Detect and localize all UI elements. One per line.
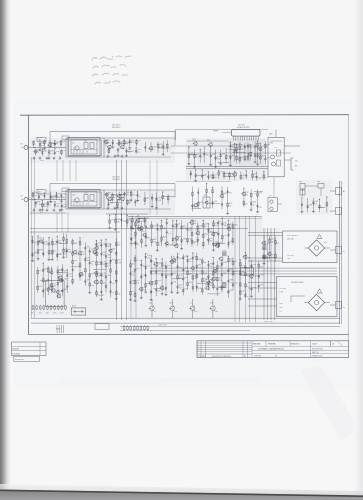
svg-text:R6: R6 — [241, 157, 243, 159]
svg-text:100: 100 — [147, 257, 150, 259]
svg-text:100: 100 — [249, 147, 252, 149]
svg-text:470: 470 — [34, 242, 37, 244]
svg-text:SCHEMATIC DIAGRAM PS3500: SCHEMATIC DIAGRAM PS3500 — [258, 347, 284, 350]
svg-text:C23: C23 — [260, 284, 263, 286]
svg-text:220: 220 — [34, 195, 37, 197]
svg-text:220: 220 — [158, 291, 161, 293]
svg-text:2SC 1815: 2SC 1815 — [238, 124, 245, 126]
svg-text:100: 100 — [210, 241, 213, 243]
svg-text:Q93: Q93 — [204, 195, 207, 197]
svg-text:220: 220 — [245, 194, 248, 196]
svg-text:R4: R4 — [234, 261, 236, 263]
svg-text:C27: C27 — [262, 156, 265, 158]
svg-text:C78: C78 — [111, 220, 114, 222]
svg-text:R33: R33 — [230, 290, 233, 292]
svg-text:T87: T87 — [87, 280, 90, 282]
svg-text:47u: 47u — [173, 262, 176, 264]
svg-text:1u: 1u — [112, 292, 114, 294]
svg-text:T31: T31 — [173, 281, 176, 283]
svg-text:R30 440.0: R30 440.0 — [112, 127, 120, 129]
svg-text:C86: C86 — [183, 239, 186, 241]
svg-text:C42: C42 — [224, 235, 227, 237]
svg-text:C34: C34 — [242, 291, 245, 293]
svg-text:1u: 1u — [107, 142, 109, 144]
svg-text:C77: C77 — [178, 236, 181, 238]
svg-text:470: 470 — [73, 200, 76, 202]
svg-text:R69: R69 — [158, 270, 161, 272]
svg-text:+35V -35V: +35V -35V — [264, 321, 273, 323]
svg-text:Q80: Q80 — [269, 134, 272, 136]
svg-text:470: 470 — [136, 260, 139, 262]
svg-text:R93: R93 — [185, 277, 188, 279]
svg-text:C14: C14 — [195, 229, 198, 231]
svg-text:0.1: 0.1 — [277, 243, 279, 245]
svg-text:L4: L4 — [94, 269, 96, 271]
svg-text:Q89: Q89 — [136, 268, 139, 270]
svg-text:C36: C36 — [172, 256, 175, 258]
svg-text:C58 100: C58 100 — [287, 255, 293, 257]
svg-text:PS-3500: PS-3500 — [13, 353, 20, 355]
svg-text:PW01: PW01 — [56, 328, 61, 330]
svg-text:R64: R64 — [206, 279, 209, 281]
svg-text:C81: C81 — [149, 303, 152, 305]
svg-text:T52: T52 — [234, 283, 237, 285]
svg-text:R81: R81 — [137, 200, 140, 202]
svg-text:L42: L42 — [219, 265, 222, 267]
svg-text:L62: L62 — [132, 291, 135, 293]
svg-text:470: 470 — [64, 270, 67, 272]
svg-text:1u: 1u — [193, 242, 195, 244]
svg-text:P0WER SUPPLY: P0WER SUPPLY — [237, 127, 251, 129]
svg-text:R4: R4 — [259, 143, 261, 145]
svg-text:R94: R94 — [167, 265, 170, 267]
svg-text:FINISHED: FINISHED — [268, 344, 277, 346]
svg-text:D66: D66 — [62, 141, 65, 143]
svg-text:47u: 47u — [133, 228, 136, 230]
svg-text:D38: D38 — [94, 244, 97, 246]
svg-text:DESCRIPTION REVISION: DESCRIPTION REVISION — [212, 356, 232, 358]
svg-text:0.1: 0.1 — [159, 230, 161, 232]
svg-text:1u: 1u — [49, 204, 51, 206]
svg-text:R3: R3 — [39, 270, 41, 272]
svg-text:Q2: Q2 — [87, 246, 89, 248]
svg-text:C45: C45 — [189, 282, 192, 284]
svg-text:C53: C53 — [223, 273, 226, 275]
svg-text:C19: C19 — [72, 194, 75, 196]
svg-text:D92: D92 — [74, 260, 77, 262]
svg-text:470: 470 — [189, 230, 192, 232]
svg-text:L29: L29 — [119, 148, 122, 150]
svg-text:47u: 47u — [39, 313, 42, 315]
svg-text:47u: 47u — [132, 274, 135, 276]
svg-text:1/1: 1/1 — [332, 344, 334, 346]
svg-text:L91: L91 — [63, 150, 66, 152]
svg-text:1u: 1u — [152, 149, 154, 151]
svg-text:+15V -15V: +15V -15V — [158, 325, 167, 327]
svg-text:220: 220 — [274, 147, 277, 149]
svg-text:R4: R4 — [91, 273, 93, 275]
svg-text:R21: R21 — [222, 154, 225, 156]
svg-text:Q47: Q47 — [212, 154, 215, 156]
svg-text:100: 100 — [189, 274, 192, 276]
svg-text:0.1: 0.1 — [202, 157, 204, 159]
svg-text:T43: T43 — [64, 278, 67, 280]
svg-text:C93: C93 — [39, 238, 42, 240]
svg-text:1u: 1u — [159, 244, 161, 246]
svg-text:C60: C60 — [44, 150, 47, 152]
svg-text:220: 220 — [46, 313, 49, 315]
svg-text:DESCRIPTION: DESCRIPTION — [312, 348, 324, 350]
svg-text:-B2: -B2 — [295, 166, 298, 168]
svg-text:C93: C93 — [50, 268, 53, 270]
svg-text:Q36 33K: Q36 33K — [287, 239, 295, 241]
svg-text:D88: D88 — [253, 264, 256, 266]
svg-text:C72: C72 — [252, 193, 255, 195]
svg-text:D83: D83 — [205, 284, 208, 286]
svg-text:L98: L98 — [259, 192, 262, 194]
svg-text:C25: C25 — [234, 271, 237, 273]
svg-text:R13: R13 — [205, 234, 208, 236]
svg-text:220: 220 — [210, 231, 213, 233]
svg-text:R60: R60 — [112, 259, 115, 261]
svg-text:R86: R86 — [37, 201, 40, 203]
svg-text:L71: L71 — [220, 172, 223, 174]
svg-text:D28: D28 — [158, 280, 161, 282]
svg-text:220: 220 — [118, 245, 121, 247]
svg-text:220: 220 — [103, 283, 106, 285]
svg-text:RL01: RL01 — [72, 306, 76, 308]
svg-text:1u: 1u — [91, 264, 93, 266]
svg-text:470: 470 — [229, 193, 232, 195]
svg-text:100: 100 — [87, 260, 90, 262]
svg-text:L37: L37 — [142, 231, 145, 233]
svg-text:MODEL NO: MODEL NO — [15, 359, 25, 361]
svg-text:470: 470 — [259, 207, 262, 209]
svg-text:R22: R22 — [200, 202, 203, 204]
svg-text:R43: R43 — [158, 262, 161, 264]
svg-text:1u: 1u — [230, 282, 232, 284]
svg-text:Q14: Q14 — [112, 249, 115, 251]
svg-text:0.1: 0.1 — [98, 283, 100, 285]
svg-text:L8: L8 — [72, 142, 74, 144]
svg-text:CHECKED: CHECKED — [254, 356, 262, 358]
svg-text:0.1: 0.1 — [154, 311, 156, 313]
svg-text:L1: L1 — [190, 303, 192, 305]
svg-text:470: 470 — [54, 244, 57, 246]
svg-text:C96: C96 — [309, 205, 312, 207]
svg-text:R49: R49 — [230, 269, 233, 271]
svg-text:Q70: Q70 — [132, 263, 135, 265]
svg-text:C83: C83 — [223, 262, 226, 264]
svg-text:T75: T75 — [215, 242, 218, 244]
svg-text:R81: R81 — [137, 225, 140, 227]
svg-text:47u: 47u — [215, 225, 218, 227]
svg-text:C98: C98 — [210, 303, 213, 305]
svg-text:L56: L56 — [214, 201, 217, 203]
svg-text:Q54: Q54 — [152, 270, 155, 272]
svg-text:R27: R27 — [213, 267, 216, 269]
svg-text:0.1: 0.1 — [37, 152, 39, 154]
svg-text:Q27: Q27 — [58, 276, 61, 278]
svg-text:100: 100 — [112, 283, 115, 285]
svg-text:470: 470 — [139, 221, 142, 223]
svg-text:R64: R64 — [93, 248, 96, 250]
svg-text:D13 56K: D13 56K — [280, 288, 287, 290]
svg-text:R92: R92 — [34, 253, 37, 255]
svg-text:C25: C25 — [39, 286, 42, 288]
svg-text:47u: 47u — [232, 147, 235, 149]
svg-text:MR AG173: MR AG173 — [291, 343, 299, 346]
svg-text:100: 100 — [118, 293, 121, 295]
svg-text:C99: C99 — [185, 289, 188, 291]
svg-text:C16: C16 — [46, 194, 49, 196]
svg-text:C64: C64 — [280, 303, 283, 305]
svg-text:C9: C9 — [214, 175, 216, 177]
svg-text:100: 100 — [280, 307, 283, 309]
svg-text:100: 100 — [136, 283, 139, 285]
svg-text:47u: 47u — [271, 255, 274, 257]
svg-text:SEL: SEL — [242, 272, 245, 274]
svg-text:MODEL: MODEL — [13, 349, 20, 351]
svg-text:Q21: Q21 — [185, 268, 188, 270]
svg-text:D8: D8 — [40, 195, 42, 197]
svg-text:R45: R45 — [299, 181, 302, 183]
svg-text:R17: R17 — [174, 242, 177, 244]
svg-text:100: 100 — [217, 159, 220, 161]
svg-text:REC SELECT: REC SELECT — [287, 235, 299, 237]
svg-text:1u: 1u — [242, 178, 244, 180]
svg-text:0.1: 0.1 — [280, 311, 282, 313]
svg-text:T33: T33 — [212, 275, 215, 277]
svg-text:470: 470 — [153, 241, 156, 243]
svg-text:47u: 47u — [265, 177, 268, 179]
svg-text:REG: REG — [270, 143, 274, 145]
svg-text:T60: T60 — [137, 222, 140, 224]
svg-text:470: 470 — [50, 153, 53, 155]
svg-text:47u: 47u — [252, 204, 255, 206]
svg-text:C75: C75 — [173, 272, 176, 274]
svg-text:47u: 47u — [168, 233, 171, 235]
svg-text:470: 470 — [205, 226, 208, 228]
svg-text:D12: D12 — [167, 275, 170, 277]
svg-text:D13: D13 — [131, 140, 134, 142]
svg-text:Q10: Q10 — [269, 195, 272, 197]
svg-text:100: 100 — [132, 194, 135, 196]
svg-text:C68: C68 — [56, 151, 59, 153]
svg-text:C4: C4 — [178, 224, 180, 226]
svg-text:100: 100 — [91, 285, 94, 287]
svg-text:C77: C77 — [147, 266, 150, 268]
svg-text:R93: R93 — [234, 225, 237, 227]
svg-text:470: 470 — [195, 311, 198, 313]
svg-text:R26: R26 — [163, 237, 166, 239]
svg-text:NATURAL: NATURAL — [253, 343, 261, 346]
svg-text:D65: D65 — [63, 194, 66, 196]
svg-text:0.1: 0.1 — [315, 203, 317, 205]
svg-text:+B1: +B1 — [295, 161, 298, 163]
svg-text:D21: D21 — [138, 140, 141, 142]
svg-text:C68 440.1: C68 440.1 — [112, 179, 120, 181]
svg-text:1u: 1u — [247, 296, 249, 298]
svg-text:Q33: Q33 — [192, 139, 195, 141]
svg-text:PHONES JACK: PHONES JACK — [291, 281, 304, 284]
svg-text:R5: R5 — [54, 250, 56, 252]
svg-text:C66: C66 — [107, 275, 110, 277]
svg-text:C88: C88 — [260, 274, 263, 276]
svg-text:47u: 47u — [245, 204, 248, 206]
svg-text:Q97: Q97 — [169, 303, 172, 305]
